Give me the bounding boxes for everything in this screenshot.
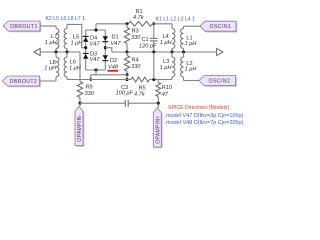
wire bridge right column bbox=[104, 30, 106, 70]
svg-text:330: 330 bbox=[131, 35, 141, 41]
svg-text:1 μH: 1 μH bbox=[185, 66, 198, 72]
flag OPAMPIN+ bbox=[155, 109, 163, 148]
flag DBROUT2 bbox=[4, 77, 41, 87]
node dot L1/L2 junction bbox=[182, 50, 185, 53]
wire L2 to OSCIN2 bbox=[184, 80, 200, 82]
node dot R10/C3 row bbox=[157, 102, 160, 105]
svg-text:R10: R10 bbox=[162, 85, 172, 91]
node dot row79 C-branch bbox=[152, 78, 155, 81]
node dot R1/R3 junction bbox=[125, 22, 128, 25]
wire L1 to OSCIN1 bbox=[184, 25, 201, 27]
diode bridge top rail bbox=[86, 29, 106, 31]
inductor L2 bbox=[183, 52, 185, 57]
svg-text:DBROUT2: DBROUT2 bbox=[10, 79, 38, 85]
diode D2 bbox=[103, 55, 108, 60]
svg-text:D2: D2 bbox=[110, 58, 117, 64]
flag OSCIN1 bbox=[201, 23, 237, 33]
svg-text:V47: V47 bbox=[111, 41, 122, 47]
wire rail to L4 bbox=[153, 23, 173, 25]
wire bridge left column bbox=[85, 30, 87, 70]
svg-text:330: 330 bbox=[85, 91, 95, 97]
node dot bridge mid-right bbox=[104, 46, 107, 49]
svg-text:K2 L5 L6 L8 L7 1: K2 L5 L6 L8 L7 1 bbox=[46, 16, 86, 22]
diode bridge bottom rail bbox=[86, 69, 106, 71]
diode D1 bbox=[103, 36, 108, 41]
wire DBROUT2 to L8 bbox=[40, 80, 57, 82]
node dot L4/L3 junction bbox=[170, 50, 173, 53]
node dot bridge mid-left bbox=[84, 46, 87, 49]
resistor R10 bbox=[157, 80, 159, 83]
svg-text:L6: L6 bbox=[70, 59, 76, 65]
diode D3 bbox=[83, 52, 89, 54]
svg-text:OSCIN1: OSCIN1 bbox=[210, 24, 232, 30]
svg-text:4.7k: 4.7k bbox=[134, 91, 146, 97]
svg-text:R4: R4 bbox=[132, 57, 139, 63]
port triangle right bbox=[217, 48, 223, 55]
bias rail top bbox=[96, 23, 129, 25]
inductor L8 bbox=[55, 52, 57, 57]
svg-text:.model V48 D(Ibv=7p Cjo=205p): .model V48 D(Ibv=7p Cjo=205p) bbox=[165, 120, 244, 126]
capacitor C3 bbox=[80, 102, 125, 104]
wire to OPAMPIN- flag bbox=[79, 103, 81, 106]
node dot L7/L8 junction bbox=[54, 50, 57, 53]
inductor L7 bbox=[55, 26, 57, 29]
wire jog lower rail to row 79 bbox=[90, 75, 92, 80]
svg-text:1 μH: 1 μH bbox=[160, 40, 173, 46]
svg-text:OPAMPIN+: OPAMPIN+ bbox=[155, 115, 161, 143]
svg-text:C1: C1 bbox=[142, 37, 149, 43]
svg-text:OSCIN2: OSCIN2 bbox=[209, 78, 231, 84]
wire middle row M bbox=[112, 51, 217, 53]
svg-text:.model V47 D(Ibv=3p Cjo=105p): .model V47 D(Ibv=3p Cjo=105p) bbox=[165, 113, 244, 119]
red highlight under V48 bbox=[108, 70, 119, 72]
svg-text:D1: D1 bbox=[112, 34, 119, 40]
wire center tap down to R9 bbox=[79, 52, 81, 82]
svg-text:120 pF: 120 pF bbox=[139, 43, 157, 49]
svg-text:SPICE Directives [Models]: SPICE Directives [Models] bbox=[168, 105, 229, 111]
svg-text:L5: L5 bbox=[73, 34, 79, 40]
node dot R9/C3 row bbox=[78, 102, 81, 105]
resistor R5 bbox=[131, 77, 150, 82]
node dot bridge bottom bbox=[94, 68, 97, 71]
svg-text:1 μH: 1 μH bbox=[45, 40, 58, 46]
node dot row79 R4/R5 bbox=[125, 78, 128, 81]
wire stub bridge bottom bbox=[95, 70, 97, 75]
svg-text:R9: R9 bbox=[86, 84, 93, 90]
wire L6 bottom row bbox=[67, 79, 131, 81]
wire L5 top jog to bridge mid-left node bbox=[67, 24, 86, 47]
node dot C1 row M bbox=[152, 50, 155, 53]
resistor R1 bbox=[129, 21, 153, 26]
resistor R4 bbox=[126, 52, 128, 56]
svg-text:1 μH: 1 μH bbox=[160, 65, 173, 71]
wire center tap row left bbox=[40, 51, 80, 53]
svg-text:DBROUT1: DBROUT1 bbox=[10, 24, 38, 30]
inductor L4 bbox=[171, 24, 173, 29]
wire to OPAMPIN+ flag bbox=[157, 103, 159, 108]
inductor L6 bbox=[66, 52, 68, 57]
svg-text:V48: V48 bbox=[108, 64, 119, 70]
svg-text:4.7k: 4.7k bbox=[133, 15, 145, 21]
capacitor C1 bbox=[153, 24, 155, 38]
svg-text:330: 330 bbox=[131, 64, 141, 70]
wire R4 bottom to row 79 bbox=[126, 75, 128, 80]
node dot bridge top bbox=[94, 28, 97, 31]
inductor L3 bbox=[171, 52, 173, 57]
svg-text:100 pF: 100 pF bbox=[116, 91, 134, 97]
svg-text:R3: R3 bbox=[132, 28, 139, 34]
node dot R4 bottom rail bbox=[125, 73, 128, 76]
wire stub bridge top to bias rail bbox=[95, 24, 97, 30]
svg-text:47: 47 bbox=[162, 92, 169, 98]
wire bridge mid-right jog to row M bbox=[105, 48, 112, 52]
node dot R1/C1 junction bbox=[152, 22, 155, 25]
svg-text:1 μH: 1 μH bbox=[44, 66, 57, 72]
wire R5 to L3 bbox=[150, 79, 173, 81]
wire DBROUT1 to L7 bbox=[40, 25, 56, 27]
flag OSCIN2 bbox=[200, 77, 237, 87]
svg-text:K1 L1 L2 L3 L4 1: K1 L1 L2 L3 L4 1 bbox=[156, 16, 196, 22]
port triangle left (center tap) bbox=[34, 48, 40, 55]
svg-text:V47: V47 bbox=[90, 41, 101, 47]
wire row M down to row79 bbox=[153, 52, 155, 80]
svg-text:OPAMPIN-: OPAMPIN- bbox=[77, 114, 83, 141]
flag DBROUT1 bbox=[5, 22, 42, 32]
resistor R3 bbox=[126, 24, 128, 28]
flag OPAMPIN- bbox=[76, 108, 84, 147]
node dot L5/L6 junction bbox=[65, 50, 68, 53]
resistor R9 bbox=[77, 82, 82, 98]
svg-text:V47: V47 bbox=[90, 57, 101, 63]
lower bias rail bbox=[91, 74, 127, 76]
diode D4 bbox=[83, 35, 89, 37]
inductor L1 bbox=[183, 26, 185, 28]
svg-text:1 μH: 1 μH bbox=[185, 41, 198, 47]
svg-text:1 μH: 1 μH bbox=[69, 66, 82, 72]
inductor L5 bbox=[66, 24, 68, 28]
node dot R3/R4 row M bbox=[125, 50, 128, 53]
